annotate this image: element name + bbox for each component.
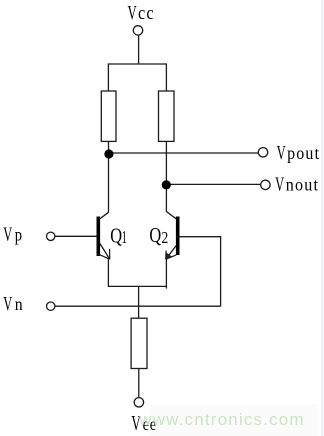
wire Vcc stem	[138, 35, 140, 64]
power terminal Vee	[134, 398, 143, 407]
wire Vn line	[55, 305, 221, 307]
wire Q2 base drop	[220, 237, 222, 307]
transistor Q2	[165, 212, 179, 260]
label Vn	[3, 292, 22, 315]
label Q1	[110, 225, 127, 248]
label Vee	[131, 411, 157, 435]
wire left resistor to Q1 collector	[108, 141, 110, 212]
svg-text:cc: cc	[138, 4, 155, 24]
svg-text:V: V	[128, 1, 138, 24]
power terminal Vcc	[133, 26, 142, 35]
resistor left load	[101, 91, 116, 141]
output terminal Vpout	[258, 148, 267, 157]
svg-text:V: V	[277, 141, 286, 164]
wire Q2 emitter drop	[165, 259, 167, 289]
output terminal Vnout	[261, 180, 270, 189]
wire right resistor to Q2 collector	[165, 141, 167, 212]
wire Vnout output	[166, 183, 260, 185]
svg-text:p: p	[15, 224, 22, 244]
svg-text:2: 2	[162, 228, 169, 247]
svg-text:Q: Q	[149, 224, 161, 247]
wire Q1 emitter drop	[107, 259, 109, 288]
svg-text:pout: pout	[287, 143, 320, 163]
wire emitter rail	[108, 285, 166, 287]
svg-text:nout: nout	[286, 175, 319, 195]
svg-text:V: V	[3, 292, 12, 315]
svg-text:V: V	[275, 173, 284, 196]
input terminal Vn	[47, 302, 55, 310]
wire tail resistor to Vee	[138, 369, 140, 398]
label Vp	[3, 222, 22, 245]
svg-text:www.cntronics.com: www.cntronics.com	[138, 410, 303, 429]
svg-text:1: 1	[122, 227, 127, 247]
label Q2	[149, 224, 168, 247]
svg-text:Q: Q	[110, 225, 122, 248]
wire Vp to Q1 base	[55, 235, 97, 237]
watermark band	[150, 404, 319, 436]
input terminal Vp	[47, 232, 55, 240]
transistor Q1	[97, 212, 110, 259]
svg-text:n: n	[15, 294, 23, 314]
svg-text:V: V	[3, 222, 12, 245]
node B: right output junction	[162, 180, 171, 189]
label Vcc	[128, 1, 155, 24]
node A: left output junction	[104, 149, 113, 158]
page edge line	[321, 0, 323, 436]
resistor right load	[159, 91, 175, 141]
wire tail stem	[138, 286, 140, 318]
wire Q2 base lead	[180, 236, 222, 238]
wire Vpout output	[109, 152, 259, 154]
wire top rail	[108, 63, 166, 65]
wire left branch drop	[107, 63, 109, 91]
wire right branch drop	[165, 63, 167, 91]
resistor tail	[131, 318, 147, 368]
label Vnout	[275, 173, 319, 196]
label Vpout	[277, 141, 321, 164]
